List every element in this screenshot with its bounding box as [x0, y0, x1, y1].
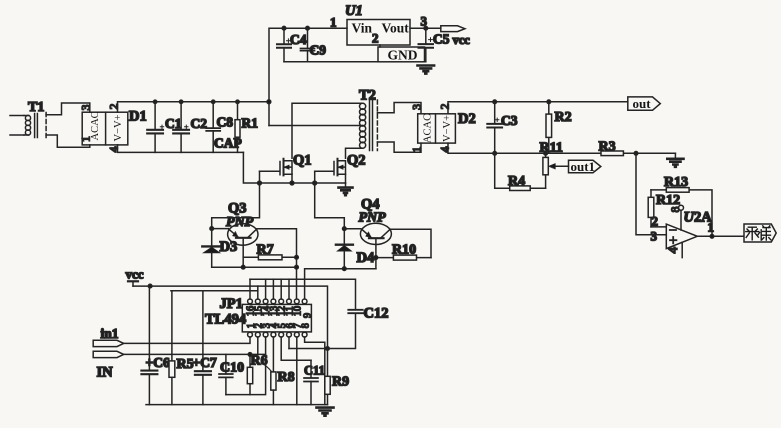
transformer T2 primary winding — [360, 103, 366, 109]
svg-text:8: 8 — [300, 323, 311, 328]
svg-text:out: out — [633, 96, 652, 111]
resistor R10 — [376, 257, 431, 259]
resistor R13 — [651, 190, 712, 236]
node vcc junction — [148, 284, 152, 288]
wire Q4 collector loop — [390, 229, 431, 257]
svg-text:Vin: Vin — [352, 21, 373, 36]
svg-text:R4: R4 — [508, 174, 525, 189]
wire R3 node to pin3 — [636, 153, 666, 235]
svg-text:C8: C8 — [217, 115, 234, 130]
wire Q1 gate to Q3 — [212, 183, 260, 246]
wire T2 bottom lead to Q2 drain — [346, 148, 363, 158]
svg-text:C3: C3 — [501, 113, 518, 128]
svg-text:4: 4 — [440, 146, 452, 152]
bottom pin circles — [248, 332, 253, 337]
ground below C5 — [418, 66, 435, 74]
caiyang (sample) connector — [744, 224, 776, 242]
svg-text:U1: U1 — [345, 3, 363, 19]
svg-text:4: 4 — [665, 246, 680, 253]
ground bottom — [317, 408, 334, 416]
pin 8 stub — [679, 205, 684, 210]
resistor R6 — [249, 354, 251, 394]
resistor R5 — [171, 291, 173, 405]
svg-text:2: 2 — [652, 214, 659, 229]
out connector — [628, 97, 661, 110]
node Q3 emitter junction — [210, 227, 214, 231]
resistor R11 (pot) — [545, 153, 547, 188]
pin 13 — [271, 299, 276, 304]
svg-text:TL494: TL494 — [205, 312, 246, 328]
svg-text:Vout: Vout — [382, 21, 410, 36]
capacitor C7 — [202, 291, 204, 405]
node Q4 emitter junction — [343, 227, 347, 231]
wire Q2 gate drop — [314, 171, 316, 183]
ground right of R3 — [674, 153, 676, 158]
IN connector — [93, 351, 124, 357]
svg-text:C10: C10 — [220, 361, 244, 376]
svg-text:V−V+: V−V+ — [113, 114, 124, 141]
wire pin2 lead — [651, 226, 666, 228]
node feedback junction — [710, 235, 714, 239]
svg-text:3: 3 — [81, 104, 93, 110]
pin 14 — [263, 299, 268, 304]
wire T2 secondary to D2 top — [377, 103, 421, 114]
svg-text:R1: R1 — [242, 116, 259, 131]
svg-text:vcc: vcc — [126, 267, 144, 282]
transformer T2 core — [370, 100, 373, 151]
svg-text:C2: C2 — [191, 116, 208, 131]
capacitor C1 — [154, 102, 156, 153]
pin 15 — [255, 299, 260, 304]
node source rail junctions — [258, 181, 262, 185]
node C12 bus2 junction — [326, 347, 330, 351]
svg-text:1: 1 — [708, 220, 715, 235]
svg-text:9: 9 — [303, 313, 314, 318]
wire reference bus — [171, 290, 258, 292]
svg-text:R11: R11 — [540, 141, 563, 156]
svg-text:T1: T1 — [28, 100, 44, 115]
wire Q3 emitter lead — [212, 228, 229, 230]
wire Q4 emitter lead — [344, 228, 360, 230]
capacitor C3 — [494, 102, 496, 154]
svg-text:C9: C9 — [310, 43, 327, 58]
capacitor C2 — [180, 102, 182, 153]
pin 9 — [302, 299, 307, 304]
wire U1 input rail from T2 center tap — [269, 28, 347, 125]
capacitor C9 — [307, 28, 309, 62]
svg-text:R13: R13 — [664, 175, 688, 190]
svg-text:C11: C11 — [304, 364, 325, 378]
bridge rectifier D1 — [82, 112, 128, 145]
wire U1 pin2 stub — [379, 45, 381, 47]
svg-text:Q1: Q1 — [293, 153, 312, 169]
resistor R9 — [327, 349, 329, 405]
transistor Q3 (PNP) — [228, 224, 258, 246]
svg-text:vcc: vcc — [453, 33, 471, 47]
capacitor C5 — [425, 28, 427, 62]
node R10 base junction — [374, 256, 378, 260]
svg-text:D2: D2 — [458, 111, 476, 127]
wire T1 to D1 top — [46, 103, 90, 115]
diode D3 — [202, 245, 221, 247]
wire bottom ground rail — [146, 404, 328, 406]
capacitor C12 — [348, 310, 362, 313]
capacitor C4 — [283, 28, 285, 62]
wire vcc bus — [133, 286, 328, 348]
wire Q3 base down — [242, 238, 244, 267]
resistor R3 — [601, 151, 623, 156]
wire Q4 bottom rail — [305, 269, 376, 299]
node R6 top junction — [248, 353, 252, 357]
out1 connector with wiper arrow — [551, 165, 569, 167]
svg-text:1: 1 — [81, 136, 93, 142]
svg-text:3: 3 — [412, 104, 424, 110]
pin 11 — [287, 299, 292, 304]
pin 12 — [279, 299, 284, 304]
op-amp U2A triangle — [666, 224, 697, 249]
wire common source rail — [243, 152, 345, 183]
svg-text:C4: C4 — [290, 32, 307, 47]
svg-text:out1: out1 — [571, 159, 596, 174]
wire Q3 bottom rail — [212, 266, 297, 268]
wire T1 to D1 bottom — [46, 135, 90, 147]
wire Q2 gate to Q4 — [315, 183, 345, 245]
wire T2 secondary to D2 bottom — [377, 142, 421, 152]
svg-text:R12: R12 — [656, 193, 680, 208]
svg-text:C5: C5 — [433, 32, 450, 47]
label caiyang (sample) — [746, 226, 771, 240]
node D4 bottom junction — [343, 267, 347, 271]
wire pin7 to ground rail — [296, 337, 298, 405]
capacitor C11 — [310, 360, 312, 404]
svg-text:ACAC: ACAC — [423, 114, 434, 143]
svg-text:4: 4 — [109, 146, 121, 152]
svg-text:R5: R5 — [177, 357, 194, 372]
svg-text:D3: D3 — [220, 239, 238, 255]
svg-text:2: 2 — [109, 103, 121, 109]
svg-text:T2: T2 — [359, 88, 376, 104]
wire pin8 to ground — [305, 337, 325, 405]
node Q3 bottom junctions — [241, 265, 245, 269]
wire upper bus to C12 top — [250, 279, 356, 310]
op-amp U1 box (regulator) — [347, 20, 410, 46]
svg-text:D1: D1 — [129, 109, 147, 125]
transistor Q4 (PNP) — [360, 223, 391, 244]
transformer T2 secondary (dashed) — [376, 100, 378, 151]
svg-text:+C6: +C6 — [146, 355, 170, 370]
svg-text:8: 8 — [668, 207, 682, 213]
pin 10 — [294, 299, 299, 304]
bridge rectifier D2 — [418, 114, 456, 143]
capacitor C8 — [212, 102, 214, 153]
node C5 junction — [424, 26, 428, 30]
wire Q1 source to common rail — [291, 174, 293, 183]
wire D2 pin4 and output -rail — [448, 143, 675, 153]
svg-text:R6: R6 — [251, 354, 268, 369]
svg-text:R3: R3 — [599, 140, 616, 155]
wire pin1 to in1 — [124, 337, 250, 343]
wire pin4 to R8 — [272, 337, 274, 372]
resistor R8 — [271, 372, 276, 390]
ground under Q2 source — [345, 183, 347, 187]
connector JP1 (TL494) box — [242, 304, 311, 332]
wire pin3 down — [226, 337, 266, 395]
wire pin5 to C11 — [281, 337, 311, 360]
wire Q2 source — [345, 174, 347, 183]
svg-text:R10: R10 — [392, 243, 416, 258]
svg-text:ACAC: ACAC — [90, 111, 101, 140]
svg-text:R2: R2 — [555, 110, 572, 125]
svg-text:IN: IN — [97, 365, 114, 381]
wire D1 pin4 stub and -V rail — [118, 145, 244, 153]
node rail junctions — [153, 100, 156, 103]
vcc connector arrow — [441, 26, 465, 32]
diode D4 — [336, 243, 353, 245]
svg-text:R7: R7 — [257, 243, 274, 258]
wire U1 pin3 output — [410, 27, 441, 29]
wire Q1 gate drop — [259, 171, 261, 183]
svg-text:R8: R8 — [278, 370, 295, 385]
svg-text:1: 1 — [330, 15, 337, 30]
svg-text:in1: in1 — [101, 326, 119, 341]
svg-text:JP1: JP1 — [220, 296, 243, 312]
capacitor C6 — [148, 286, 150, 405]
wire T2 center tap — [269, 125, 363, 127]
wire pin2 to IN — [124, 337, 266, 354]
node output rail junctions — [493, 100, 497, 104]
wire Q3 collector to R7 right — [257, 229, 297, 299]
svg-text:V−V+: V−V+ — [442, 115, 453, 142]
resistor R2 — [548, 102, 550, 154]
wire T2 top lead to Q1 drain — [292, 103, 363, 158]
wire U1 ground rail — [284, 61, 426, 63]
resistor R1 — [237, 102, 239, 153]
GND box of U1 — [378, 47, 425, 62]
resistor R7 — [243, 256, 296, 258]
wire D1 pin2 stub and +V rail — [118, 102, 269, 112]
resistor R12 — [650, 190, 652, 227]
svg-text:3: 3 — [651, 229, 658, 244]
capacitor C10 — [225, 354, 227, 394]
wire pin6 to C12 bottom — [288, 337, 290, 349]
pin 4 stub — [681, 242, 683, 257]
pin 16 — [248, 299, 253, 304]
svg-text:Q2: Q2 — [347, 153, 366, 169]
svg-text:2: 2 — [440, 103, 452, 109]
wire Q4 base down — [375, 238, 377, 269]
svg-text:D4: D4 — [357, 250, 375, 266]
wire D2 pin2 and output +rail — [448, 102, 628, 114]
svg-text:GND: GND — [388, 48, 418, 63]
node U1 pin1 junctions — [282, 26, 286, 30]
svg-text:R9: R9 — [332, 375, 349, 390]
svg-text:+C7: +C7 — [193, 355, 217, 370]
svg-text:2: 2 — [372, 31, 379, 46]
svg-text:C12: C12 — [364, 306, 389, 322]
resistor R4 — [495, 153, 546, 188]
wire U2A output — [697, 235, 743, 237]
svg-text:1: 1 — [412, 146, 424, 152]
